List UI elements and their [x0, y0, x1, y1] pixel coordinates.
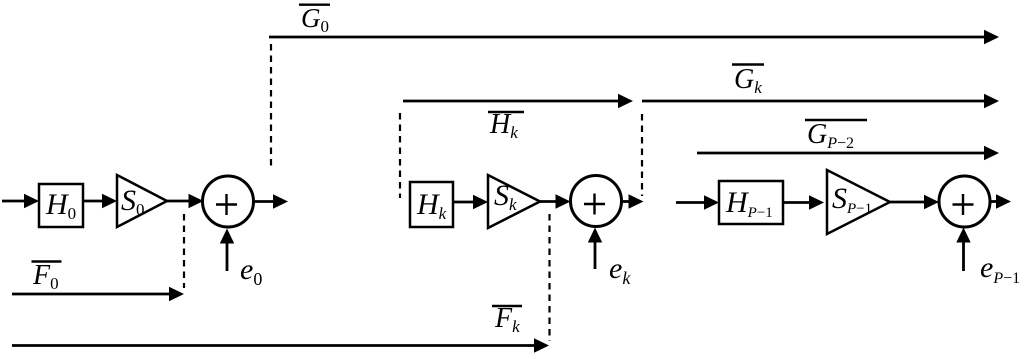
svg-text:Fk: Fk	[494, 303, 520, 336]
svg-text:Gk: Gk	[734, 64, 762, 97]
svg-text:SP−1: SP−1	[832, 182, 872, 217]
wire input arrow into HP-1	[676, 195, 719, 209]
summer (adder) middle	[571, 176, 622, 227]
filter block H0	[39, 184, 83, 227]
label F0-bar	[32, 260, 62, 293]
summer (adder) right	[939, 176, 990, 227]
gain block SP-1	[827, 170, 890, 234]
dashed wire from Sk output node down to Fk arrow	[548, 214, 550, 341]
svg-text:G0: G0	[301, 3, 329, 36]
summer (adder) left	[203, 176, 254, 227]
wire arrow Fk bus (bottom)	[12, 338, 549, 352]
svg-text:HP−1: HP−1	[725, 186, 773, 221]
dashed wire from Hk-bar bus down to Hk input node	[399, 113, 401, 198]
svg-text:e0: e0	[240, 253, 262, 289]
wire arrow F0 bus	[12, 287, 184, 301]
label Gk-bar	[732, 64, 764, 97]
gain block Sk	[488, 175, 540, 228]
label G0-bar (net G0)	[299, 3, 330, 36]
wire arrow G0 output bus	[269, 30, 999, 44]
label Hk-bar	[488, 109, 524, 142]
wire input arrow into H0	[2, 194, 39, 208]
svg-text:GP−2: GP−2	[807, 119, 854, 152]
svg-text:F0: F0	[32, 260, 59, 293]
wire summer output	[254, 194, 289, 208]
wire arrow Gk bus	[642, 94, 999, 108]
svg-text:Sk: Sk	[494, 179, 517, 214]
wire ek into summer	[588, 228, 602, 270]
wire SP-1 to summer	[890, 195, 939, 209]
svg-text:Hk: Hk	[489, 109, 518, 142]
wire right summer output	[990, 194, 1011, 208]
filter block Hk	[410, 182, 453, 227]
svg-text:eP−1: eP−1	[980, 251, 1020, 287]
filter block HP-1	[719, 181, 783, 224]
label GP-2-bar	[805, 119, 867, 152]
wire arrow Hk-bar bus	[403, 94, 633, 108]
dashed wire from Gk bus down to middle summer output node	[641, 114, 643, 196]
wire arrow GP-2 bus	[697, 146, 999, 160]
wire Hk to Sk	[453, 195, 488, 209]
wire Sk to summer	[540, 194, 571, 208]
label Fk-bar	[492, 303, 522, 336]
svg-text:S0: S0	[121, 184, 145, 219]
wire middle summer output	[622, 194, 644, 208]
svg-text:Hk: Hk	[416, 188, 447, 223]
wire eP-1 into summer	[956, 228, 970, 272]
dashed wire from S0 output node down to F0 arrow	[183, 214, 185, 288]
svg-text:H0: H0	[45, 188, 76, 223]
wire H0 to S0	[83, 194, 117, 208]
svg-text:ek: ek	[609, 252, 631, 288]
wire HP-1 to SP-1	[783, 195, 824, 209]
gain block S0	[117, 175, 167, 227]
dashed wire from G0 bus down to summer S1 output node	[270, 44, 272, 169]
wire e0 into summer	[220, 229, 234, 272]
wire S0 to summer	[167, 194, 204, 208]
